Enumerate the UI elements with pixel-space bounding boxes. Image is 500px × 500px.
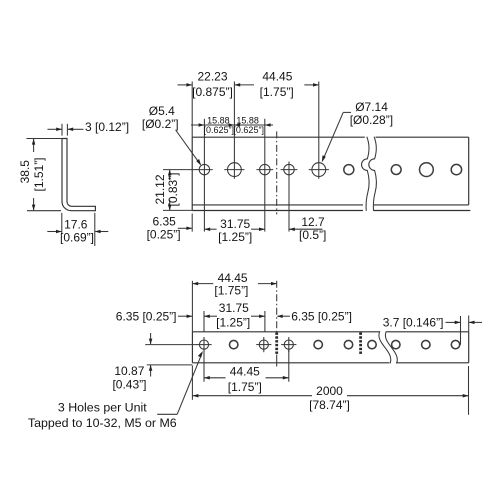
break squiggle (top view) <box>362 137 377 211</box>
rail front outline <box>192 332 468 363</box>
extension lines (front view) <box>145 281 469 415</box>
svg-text:21.12: 21.12 <box>153 174 167 204</box>
note: 3 Holes per Unit / Tapped to 10-32, M5 or M6 with leader <box>28 351 203 430</box>
svg-text:31.75: 31.75 <box>219 301 249 315</box>
unit boundary dash-dot extension (front view) <box>276 281 278 332</box>
svg-text:[1.51”]: [1.51”] <box>32 157 46 191</box>
dimension 2000 [78.74"] overall <box>193 384 469 412</box>
svg-text:[1.25”]: [1.25”] <box>218 230 252 244</box>
svg-text:[0.875”]: [0.875”] <box>192 85 233 99</box>
svg-text:3.7 [0.146”]: 3.7 [0.146”] <box>383 315 444 329</box>
break squiggle (front view) <box>379 331 397 363</box>
svg-text:[78.74”]: [78.74”] <box>309 398 350 412</box>
svg-text:[0.69”]: [0.69”] <box>60 230 94 244</box>
unit boundary centerline (top view, dash-dot) <box>276 131 278 214</box>
plain hole B <box>230 340 238 348</box>
svg-text:17.6: 17.6 <box>64 217 88 231</box>
plain hole J <box>451 340 459 348</box>
dimension 38.5 [1.51"] (height, rotated) <box>18 139 62 211</box>
hole 9 (plain ring) <box>451 164 461 174</box>
dimension 17.6 [0.69"] (width) <box>47 213 108 246</box>
unit boundary hatch marks (front view) <box>277 333 361 363</box>
dimension 31.75 [1.25"] (front view) <box>204 301 265 329</box>
plain hole I <box>422 340 430 348</box>
svg-text:38.5: 38.5 <box>18 160 32 184</box>
dimension 10.87 [0.43"] <box>112 333 152 391</box>
rail top-view outline <box>192 137 470 210</box>
svg-text:[0.625”]: [0.625”] <box>204 125 235 135</box>
dimension 15.88 [0.625"] pair <box>191 116 273 136</box>
svg-text:[1.25”]: [1.25”] <box>216 316 250 330</box>
svg-text:12.7: 12.7 <box>301 215 325 229</box>
dimension 3 [0.12"] (thickness) <box>48 120 130 136</box>
dimension 12.7 [0.5"] (top view) <box>289 215 326 242</box>
svg-text:[0.83”]: [0.83”] <box>166 172 180 206</box>
svg-text:31.75: 31.75 <box>220 217 250 231</box>
dimension 3.7 [0.146"] <box>383 315 482 329</box>
dimension 31.75 [1.25"] (top view) <box>204 217 264 244</box>
svg-text:6.35 [0.25”]: 6.35 [0.25”] <box>116 309 177 323</box>
tapped hole C <box>256 337 271 352</box>
dimension 6.35 [0.25"] (front view left) <box>116 309 193 323</box>
dimension 44.45 [1.75"] (front view, above rail) <box>192 271 276 298</box>
hole 3 (Ø5.4) <box>256 164 273 174</box>
hole extension lines (top view) <box>192 82 319 232</box>
dimension 22.23 [0.875"] <box>178 69 233 99</box>
svg-text:[1.75”]: [1.75”] <box>214 283 248 297</box>
svg-text:[1.75”]: [1.75”] <box>260 85 294 99</box>
plain hole F <box>344 340 352 348</box>
svg-text:3 Holes per Unit: 3 Holes per Unit <box>58 400 147 414</box>
svg-text:6.35 [0.25”]: 6.35 [0.25”] <box>291 309 352 323</box>
tapped hole A <box>196 337 211 352</box>
svg-text:10.87: 10.87 <box>114 364 144 378</box>
hole 1 (Ø5.4) <box>196 164 213 174</box>
label Ø5.4 [Ø0.2"] with leader <box>142 104 201 166</box>
dimension 6.35 [0.25"] (front view right) <box>277 309 352 323</box>
svg-text:[Ø0.2”]: [Ø0.2”] <box>142 117 179 131</box>
svg-text:[0.43”]: [0.43”] <box>112 377 146 391</box>
svg-text:Ø7.14: Ø7.14 <box>355 100 388 114</box>
hole 6 (plain ring) <box>344 165 354 175</box>
svg-text:3 [0.12”]: 3 [0.12”] <box>85 120 129 134</box>
svg-text:15.88: 15.88 <box>207 116 230 126</box>
hole 2 (Ø7.14) <box>224 163 244 177</box>
L-section outline <box>62 139 95 211</box>
plain hole E <box>314 340 322 348</box>
dimension 6.35 [0.25"] (top view left) <box>147 215 193 242</box>
svg-text:44.45: 44.45 <box>262 69 292 83</box>
svg-text:22.23: 22.23 <box>197 69 227 83</box>
svg-text:44.45: 44.45 <box>230 365 260 379</box>
dimension 21.12 [0.83"] (rotated) <box>153 170 196 211</box>
hole 5 (Ø7.14) <box>309 163 329 177</box>
tapped hole D <box>281 337 296 352</box>
svg-text:2000: 2000 <box>316 384 343 398</box>
plain hole G <box>368 340 376 348</box>
svg-text:[1.75”]: [1.75”] <box>228 380 262 394</box>
svg-text:[0.5”]: [0.5”] <box>299 228 326 242</box>
hole 4 (Ø5.4) <box>281 164 298 174</box>
hole 7 (plain ring) <box>391 165 401 175</box>
svg-text:6.35: 6.35 <box>153 215 177 229</box>
svg-text:15.88: 15.88 <box>236 116 259 126</box>
label Ø7.14 [Ø0.28"] with leader <box>322 100 393 162</box>
hole 8 (plain ring large) <box>420 163 434 177</box>
svg-text:[0.625”]: [0.625”] <box>233 125 264 135</box>
svg-text:[Ø0.28”]: [Ø0.28”] <box>350 113 393 127</box>
svg-text:Tapped to 10-32, M5 or M6: Tapped to 10-32, M5 or M6 <box>28 416 177 430</box>
svg-text:[0.25”]: [0.25”] <box>147 228 181 242</box>
dimension 44.45 [1.75"] (front view, below rail) <box>204 365 289 394</box>
plain hole H <box>392 340 400 348</box>
dimension 44.45 [1.75"] (top row) <box>234 69 318 99</box>
